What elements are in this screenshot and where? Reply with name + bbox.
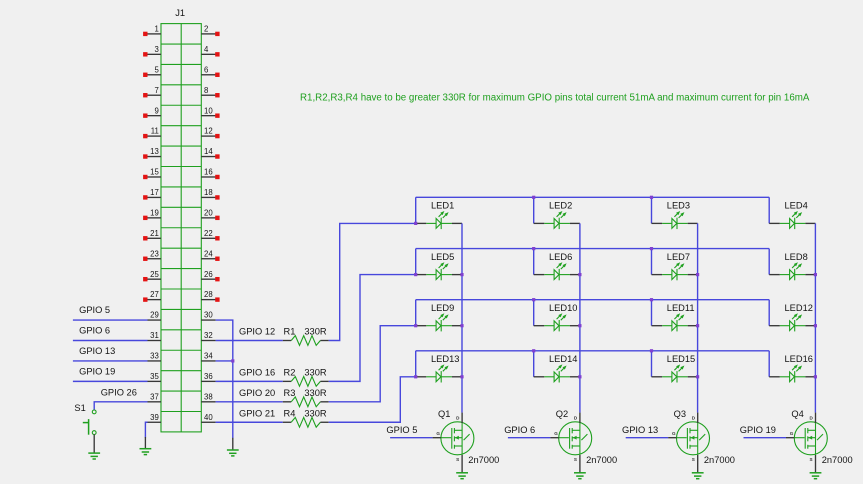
- wire R1 to LED row: [329, 223, 416, 340]
- J1 pin 26: [201, 270, 219, 282]
- svg-text:LED4: LED4: [785, 201, 808, 211]
- svg-text:26: 26: [204, 270, 213, 279]
- svg-text:2n7000: 2n7000: [704, 455, 735, 465]
- junction cathode col 4 row 3: [814, 324, 817, 327]
- svg-text:LED6: LED6: [549, 252, 572, 262]
- svg-text:LED7: LED7: [667, 252, 690, 262]
- wire bus drop LED16: [768, 351, 770, 377]
- svg-text:S: S: [456, 457, 459, 462]
- svg-text:31: 31: [150, 331, 159, 340]
- wire GPIO5 to pin 29: [73, 319, 148, 321]
- svg-text:5: 5: [154, 65, 159, 74]
- J1 pin 4: [201, 45, 219, 57]
- svg-text:R1: R1: [284, 327, 296, 337]
- junction bus row 4 col 2: [532, 349, 535, 352]
- wire R3 to LED row: [329, 326, 416, 402]
- svg-text:GPIO 26: GPIO 26: [101, 387, 137, 397]
- wire bus drop LED2: [533, 197, 535, 223]
- J1 pin 19: [143, 208, 161, 220]
- J1 pin 38: [201, 392, 215, 401]
- wire pin 39 to ground: [145, 422, 147, 437]
- J1 pin 29: [148, 311, 162, 320]
- LED2: [534, 211, 580, 229]
- switch S1: [83, 410, 96, 435]
- J1 pin 11: [143, 127, 161, 139]
- wire pin 38 to R3: [216, 401, 283, 403]
- svg-text:9: 9: [154, 106, 158, 115]
- wire bus drop LED3: [651, 197, 653, 223]
- LED13: [416, 364, 462, 382]
- junction feed row 3: [414, 324, 417, 327]
- J1 pin 24: [201, 249, 219, 261]
- wire bus drop LED8: [768, 249, 770, 275]
- junction cathode col 1 row 4: [460, 375, 463, 378]
- junction cathode col 2 row 3: [578, 324, 581, 327]
- svg-text:14: 14: [204, 147, 213, 156]
- svg-text:R2: R2: [284, 367, 296, 377]
- wire GPIO26 pin 37 to switch S1: [94, 402, 147, 410]
- svg-text:8: 8: [204, 86, 208, 95]
- svg-text:34: 34: [204, 352, 213, 361]
- svg-text:2: 2: [204, 25, 208, 34]
- svg-text:LED16: LED16: [785, 354, 813, 364]
- svg-text:15: 15: [150, 168, 159, 177]
- LED11: [652, 313, 698, 331]
- svg-text:GPIO 19: GPIO 19: [740, 425, 776, 435]
- svg-text:3: 3: [154, 45, 158, 54]
- wire bus drop LED9: [415, 300, 417, 326]
- wire gate GPIO19: [744, 437, 787, 439]
- wire bus drop LED14: [533, 351, 535, 377]
- LED10: [534, 313, 580, 331]
- wire S1 to ground: [93, 435, 95, 453]
- svg-text:LED8: LED8: [785, 252, 808, 262]
- svg-text:G: G: [436, 431, 440, 436]
- svg-text:330R: 330R: [304, 327, 327, 337]
- junction bus row 3 col 3: [650, 298, 653, 301]
- svg-text:37: 37: [150, 392, 159, 401]
- wire anode bus row 2: [416, 248, 770, 250]
- svg-text:R4: R4: [284, 408, 296, 418]
- wire pin 32 to R1: [216, 340, 283, 342]
- junction cathode col 2 row 2: [578, 273, 581, 276]
- wire R4 to LED row: [329, 377, 416, 422]
- svg-text:LED9: LED9: [431, 303, 454, 313]
- junction bus row 2 col 3: [650, 247, 653, 250]
- svg-text:R1,R2,R3,R4 have to be greater: R1,R2,R3,R4 have to be greater 330R for …: [300, 93, 810, 104]
- J1 pin 22: [201, 229, 219, 241]
- wire gate GPIO5: [390, 437, 433, 439]
- transistor Q3: [672, 413, 710, 473]
- J1 pin 33: [148, 352, 162, 361]
- svg-text:GPIO 6: GPIO 6: [79, 326, 110, 336]
- wire R2 to LED row: [329, 275, 416, 382]
- J1 pin 25: [143, 270, 161, 282]
- svg-text:32: 32: [204, 331, 213, 340]
- ground (Q2 source): [574, 473, 586, 479]
- svg-text:GPIO 19: GPIO 19: [79, 366, 115, 376]
- resistor R4: [283, 417, 329, 427]
- svg-text:16: 16: [204, 168, 213, 177]
- LED9: [416, 313, 462, 331]
- svg-text:GPIO 16: GPIO 16: [239, 367, 275, 377]
- J1 pin 32: [201, 331, 215, 340]
- wire anode bus row 1: [416, 196, 770, 198]
- wire anode bus row 3: [416, 299, 770, 301]
- wire cathode column 2: [579, 223, 581, 412]
- wire bus drop LED12: [768, 300, 770, 326]
- svg-text:S1: S1: [74, 403, 85, 413]
- LED1: [416, 211, 462, 229]
- svg-text:39: 39: [150, 413, 159, 422]
- wire pin 36 to R2: [216, 380, 283, 382]
- wire bus drop LED13: [415, 351, 417, 377]
- svg-text:2n7000: 2n7000: [468, 455, 499, 465]
- wire GPIO19 to pin 35: [73, 380, 148, 382]
- junction bus row 1 col 3: [650, 196, 653, 199]
- J1 pin 10: [201, 106, 219, 118]
- J1 pin 40: [201, 413, 215, 422]
- wire gate GPIO6: [508, 437, 551, 439]
- J1 pin 23: [143, 249, 161, 261]
- ground (Q4 source): [810, 473, 822, 479]
- svg-text:LED14: LED14: [549, 354, 577, 364]
- svg-text:GPIO 20: GPIO 20: [239, 388, 275, 398]
- junction cathode col 2 row 4: [578, 375, 581, 378]
- wire bus drop LED5: [415, 249, 417, 275]
- connector J1 body: [161, 24, 201, 432]
- J1 pin 27: [143, 290, 161, 302]
- svg-text:30: 30: [204, 311, 213, 320]
- svg-text:12: 12: [204, 127, 213, 136]
- J1 pin 7: [143, 86, 161, 98]
- svg-text:GPIO 5: GPIO 5: [386, 425, 417, 435]
- wire GPIO13 to pin 33: [73, 360, 148, 362]
- LED5: [416, 262, 462, 280]
- LED7: [652, 262, 698, 280]
- svg-text:40: 40: [204, 413, 213, 422]
- svg-text:Q1: Q1: [438, 409, 450, 419]
- svg-text:330R: 330R: [304, 367, 327, 377]
- svg-text:LED11: LED11: [667, 303, 695, 313]
- J1 pin 1: [143, 25, 161, 37]
- J1 pin 2: [201, 25, 219, 37]
- ground (S1): [88, 453, 100, 459]
- svg-text:33: 33: [150, 352, 159, 361]
- J1 pin 8: [201, 86, 219, 98]
- wire cathode column 1: [461, 223, 463, 412]
- svg-text:18: 18: [204, 188, 213, 197]
- svg-text:LED2: LED2: [549, 201, 572, 211]
- svg-text:13: 13: [150, 147, 159, 156]
- J1 pin 36: [201, 372, 215, 381]
- svg-text:G: G: [672, 431, 676, 436]
- svg-text:GPIO 6: GPIO 6: [504, 425, 535, 435]
- svg-text:29: 29: [150, 311, 159, 320]
- svg-text:G: G: [790, 431, 794, 436]
- transistor Q1: [436, 413, 474, 473]
- svg-text:S: S: [692, 457, 695, 462]
- J1 pin 6: [201, 65, 219, 77]
- svg-text:LED13: LED13: [431, 354, 459, 364]
- ground (Q1 source): [456, 473, 468, 479]
- LED15: [652, 364, 698, 382]
- ground (pins 30/34): [227, 450, 239, 456]
- ground (Q3 source): [692, 473, 704, 479]
- J1 pin 16: [201, 168, 219, 180]
- svg-text:LED12: LED12: [785, 303, 813, 313]
- svg-text:LED10: LED10: [549, 303, 577, 313]
- wire pin 34 to ground rail: [216, 360, 233, 362]
- junction cathode col 3 row 4: [696, 375, 699, 378]
- LED8: [769, 262, 815, 280]
- svg-text:4: 4: [204, 45, 209, 54]
- transistor Q4: [790, 413, 828, 473]
- svg-text:23: 23: [150, 249, 159, 258]
- J1 pin 13: [143, 147, 161, 159]
- svg-text:LED15: LED15: [667, 354, 695, 364]
- wire gate GPIO13: [626, 437, 669, 439]
- wire anode bus row 4: [416, 350, 770, 352]
- svg-text:25: 25: [150, 270, 159, 279]
- svg-text:6: 6: [204, 65, 208, 74]
- wire bus drop LED10: [533, 300, 535, 326]
- J1 pin 31: [148, 331, 162, 340]
- junction bus row 1 col 2: [532, 196, 535, 199]
- svg-text:7: 7: [154, 86, 158, 95]
- J1 pin 17: [143, 188, 161, 200]
- svg-text:330R: 330R: [304, 408, 327, 418]
- junction cathode col 4 row 4: [814, 375, 817, 378]
- svg-text:10: 10: [204, 106, 213, 115]
- ground (pin 39): [140, 449, 152, 455]
- wire bus drop LED1: [415, 197, 417, 223]
- wire GPIO6 to pin 31: [73, 340, 148, 342]
- svg-text:20: 20: [204, 208, 213, 217]
- J1 pin 35: [148, 372, 162, 381]
- LED3: [652, 211, 698, 229]
- wire cathode column 3: [697, 223, 699, 412]
- svg-text:27: 27: [150, 290, 159, 299]
- wire cathode column 4: [814, 223, 816, 412]
- svg-text:11: 11: [151, 127, 159, 136]
- svg-text:35: 35: [150, 372, 159, 381]
- svg-text:17: 17: [150, 188, 159, 197]
- J1 pin 28: [201, 290, 219, 302]
- svg-text:36: 36: [204, 372, 213, 381]
- J1 pin 9: [143, 106, 161, 118]
- svg-text:Q3: Q3: [674, 409, 686, 419]
- LED4: [769, 211, 815, 229]
- wire bus drop LED4: [768, 197, 770, 223]
- junction cathode col 4 row 2: [814, 273, 817, 276]
- svg-text:28: 28: [204, 290, 213, 299]
- wire bus drop LED7: [651, 249, 653, 275]
- resistor R2: [283, 376, 329, 386]
- J1 pin 21: [143, 229, 161, 241]
- svg-text:Q4: Q4: [791, 409, 803, 419]
- junction bus row 4 col 3: [650, 349, 653, 352]
- svg-text:21: 21: [150, 229, 159, 238]
- svg-text:1: 1: [154, 25, 158, 34]
- svg-text:19: 19: [150, 208, 159, 217]
- svg-text:R3: R3: [284, 388, 296, 398]
- junction feed row 1: [414, 222, 417, 225]
- wire bus drop LED11: [651, 300, 653, 326]
- junction pin34/rail: [231, 359, 234, 362]
- junction bus row 3 col 2: [532, 298, 535, 301]
- J1 pin 12: [201, 127, 219, 139]
- wire pin 40 to R4: [216, 421, 283, 423]
- svg-text:GPIO 21: GPIO 21: [239, 408, 275, 418]
- svg-text:LED1: LED1: [431, 201, 454, 211]
- wire bus drop LED6: [533, 249, 535, 275]
- svg-text:330R: 330R: [304, 388, 327, 398]
- LED6: [534, 262, 580, 280]
- wire pin 30 to ground rail: [216, 320, 233, 438]
- J1 pin 39: [148, 413, 162, 422]
- J1 pin 30: [201, 311, 215, 320]
- transistor Q2: [554, 413, 592, 473]
- svg-text:S: S: [810, 457, 813, 462]
- svg-text:S: S: [574, 457, 577, 462]
- svg-text:GPIO 5: GPIO 5: [79, 305, 110, 315]
- junction bus row 2 col 2: [532, 247, 535, 250]
- svg-text:LED5: LED5: [431, 252, 454, 262]
- svg-text:2n7000: 2n7000: [822, 455, 853, 465]
- resistor R1: [283, 336, 329, 346]
- junction feed row 2: [414, 273, 417, 276]
- svg-text:2n7000: 2n7000: [586, 455, 617, 465]
- J1 pin 37: [148, 392, 162, 401]
- junction cathode col 1 row 2: [460, 273, 463, 276]
- LED12: [769, 313, 815, 331]
- svg-text:GPIO 13: GPIO 13: [622, 425, 658, 435]
- J1 pin 15: [143, 168, 161, 180]
- junction cathode col 1 row 3: [460, 324, 463, 327]
- svg-text:LED3: LED3: [667, 201, 690, 211]
- J1 pin 3: [143, 45, 161, 57]
- LED16: [769, 364, 815, 382]
- svg-text:J1: J1: [175, 8, 185, 18]
- svg-text:GPIO 13: GPIO 13: [79, 346, 115, 356]
- J1 pin 20: [201, 208, 219, 220]
- svg-text:24: 24: [204, 249, 213, 258]
- junction feed row 4: [414, 375, 417, 378]
- junction cathode col 3 row 2: [696, 273, 699, 276]
- J1 pin 18: [201, 188, 219, 200]
- svg-text:GPIO 12: GPIO 12: [239, 327, 275, 337]
- svg-text:Q2: Q2: [556, 409, 568, 419]
- junction cathode col 3 row 3: [696, 324, 699, 327]
- LED14: [534, 364, 580, 382]
- J1 pin 14: [201, 147, 219, 159]
- wire bus drop LED15: [651, 351, 653, 377]
- svg-text:22: 22: [204, 229, 213, 238]
- resistor R3: [283, 397, 329, 407]
- svg-text:38: 38: [204, 392, 213, 401]
- J1 pin 34: [201, 352, 215, 361]
- svg-text:G: G: [554, 431, 558, 436]
- J1 pin 5: [143, 65, 161, 77]
